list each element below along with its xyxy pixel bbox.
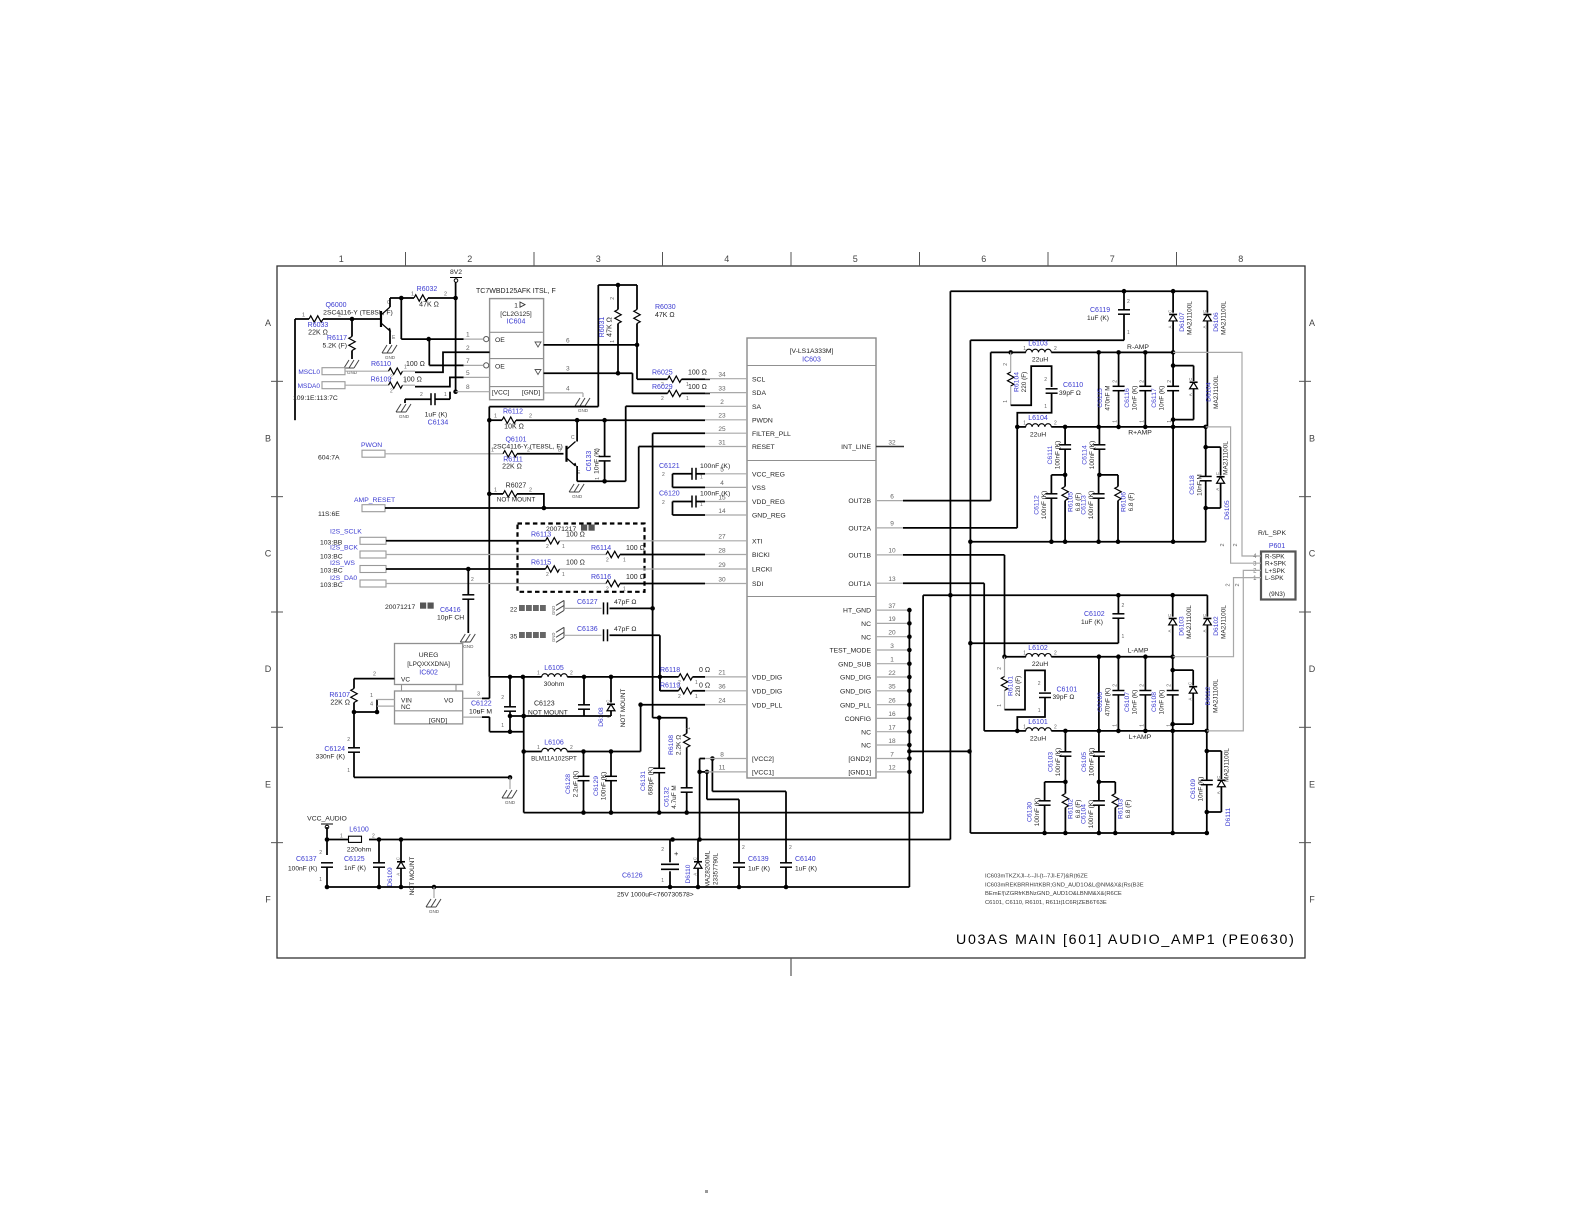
svg-text:R6113: R6113 [531,531,551,538]
svg-text:GND: GND [399,414,410,419]
wire R6033 to base [323,317,381,322]
svg-text:2: 2 [1112,684,1118,687]
svg-text:GND_DIG: GND_DIG [840,675,871,682]
svg-text:L+SPK: L+SPK [1265,568,1286,575]
svg-text:31: 31 [718,439,726,446]
svg-text:2: 2 [546,572,549,578]
svg-text:1: 1 [595,477,601,480]
svg-text:BICKI: BICKI [752,552,770,559]
svg-text:R+SPK: R+SPK [1265,561,1287,568]
node PWON [318,442,385,462]
ground C6134 [396,404,411,419]
wire L6106 feed riser [521,677,526,813]
svg-text:28: 28 [718,547,726,554]
wire 8V2 rail to IC604 VCC [453,296,458,394]
svg-text:47pF Ω: 47pF Ω [614,599,636,606]
svg-text:10nF (K): 10nF (K) [1132,386,1139,411]
svg-text:MA2J1100L: MA2J1100L [1213,679,1220,713]
svg-text:2: 2 [678,694,681,700]
svg-text:R6115: R6115 [531,560,551,567]
svg-text:VCC_REG: VCC_REG [752,471,785,478]
svg-text:1uF (K): 1uF (K) [1081,619,1103,626]
svg-text:11: 11 [719,765,726,772]
svg-text:B: B [1309,433,1315,443]
resistor R6033 [302,302,347,337]
svg-text:2: 2 [606,587,609,593]
svg-text:11S:6E: 11S:6E [318,511,340,518]
svg-text:1: 1 [466,332,470,339]
svg-text:GND: GND [551,633,556,642]
resistor R6115 [386,560,705,579]
svg-text:2: 2 [1139,380,1145,383]
notes text block [985,874,1144,906]
svg-text:GND_DIG: GND_DIG [840,688,871,695]
svg-text:VCC_AUDIO: VCC_AUDIO [307,816,347,823]
svg-text:XTI: XTI [752,538,763,545]
diode D6110 zener [685,840,720,890]
svg-text:4: 4 [370,702,373,708]
svg-text:22K Ω: 22K Ω [502,464,522,471]
node I2S_DA0 [320,575,386,589]
svg-text:OE: OE [495,364,505,371]
svg-text:NOT MOUNT: NOT MOUNT [409,857,416,896]
svg-text:2: 2 [610,297,616,300]
wire trace R-SPK [1173,352,1261,556]
svg-text:A: A [1309,318,1315,328]
svg-text:C6101: C6101 [1057,686,1078,693]
svg-text:C: C [1167,614,1172,617]
wire PWON to R6111 [385,453,503,455]
svg-text:[GND2]: [GND2] [848,756,871,763]
capacitor C6132 [664,785,693,815]
label 20071217 change [546,525,595,534]
svg-text:470nF M: 470nF M [1105,385,1112,410]
svg-text:R6117: R6117 [327,335,347,342]
svg-text:R6105: R6105 [1068,492,1075,512]
ground audio bus [426,899,441,914]
ground IC604 pin4 [575,398,590,413]
svg-text:1: 1 [514,303,518,310]
svg-text:C6132: C6132 [664,787,671,807]
resistor R6117 [322,319,355,359]
svg-text:VO: VO [444,697,453,704]
svg-text:C6108: C6108 [1151,692,1158,712]
IC U604 buffer TC7WBD125AFK [476,288,556,400]
svg-text:D6103: D6103 [1179,616,1186,636]
capacitor C6134 [405,392,450,427]
wire L gnd bus [970,831,1209,836]
svg-text:6.8 (F): 6.8 (F) [1128,493,1135,512]
capacitor C6106 [1097,657,1124,731]
svg-text:R6119: R6119 [660,682,680,689]
svg-text:A: A [1188,698,1193,701]
svg-text:NC: NC [861,634,871,641]
svg-text:100 Ω: 100 Ω [566,531,585,538]
svg-text:1nF (K): 1nF (K) [344,865,366,872]
svg-text:220 (F): 220 (F) [1021,372,1028,393]
svg-text:1: 1 [494,487,497,493]
resistor R6113 [386,531,705,550]
wire IC602 VO [463,691,490,698]
svg-text:A: A [265,318,271,328]
svg-text:PWON: PWON [361,442,382,449]
wire FILTER_PLL net [650,433,705,720]
wire IC602 VC [354,672,395,679]
svg-text:39pF Ω: 39pF Ω [1059,390,1081,397]
svg-text:LRCKI: LRCKI [752,567,772,574]
svg-text:47pF Ω: 47pF Ω [614,626,636,633]
svg-text:1: 1 [562,544,565,550]
wire L mid column [1098,657,1100,731]
svg-text:22uH: 22uH [1030,736,1046,743]
svg-text:A: A [1168,325,1173,328]
capacitor C6116 [1124,352,1151,427]
svg-text:IC603: IC603 [802,357,821,364]
svg-text:10: 10 [888,548,896,555]
svg-text:C6126: C6126 [622,873,643,880]
svg-text:A: A [1167,629,1172,632]
svg-text:OUT1B: OUT1B [848,553,871,560]
wire OUT2B [876,352,991,500]
svg-text:109:1E:113:7C: 109:1E:113:7C [293,395,338,402]
svg-text:2: 2 [420,392,423,398]
svg-text:1: 1 [1003,400,1009,403]
resistor R6027 [487,420,546,677]
svg-text:C: C [1188,682,1193,685]
transistor Q6000 [381,300,396,341]
inductor L6106 [524,740,641,763]
capacitor C6117 [1151,352,1179,541]
svg-text:1uF (K): 1uF (K) [748,866,770,873]
svg-text:1: 1 [340,834,343,840]
svg-text:0 Ω: 0 Ω [699,667,710,674]
svg-text:100nF (K): 100nF (K) [700,463,730,470]
capacitor C6416 [437,569,474,633]
svg-text:22: 22 [888,670,896,677]
svg-text:NC: NC [861,729,871,736]
svg-text:R-SPK: R-SPK [1265,553,1285,560]
svg-text:R6030: R6030 [655,304,676,311]
svg-text:2: 2 [373,672,376,678]
svg-text:GND: GND [578,408,589,413]
svg-text:A: A [1202,629,1207,632]
svg-text:C6121: C6121 [659,463,680,470]
svg-text:I2S_DA0: I2S_DA0 [330,575,357,582]
wire digital vcc riser [922,595,924,812]
capacitor C6110 [1017,377,1083,427]
capacitor C6121 [659,463,730,487]
svg-text:2: 2 [1113,380,1119,383]
diode D6106 [1202,291,1228,427]
svg-text:1: 1 [1122,634,1125,640]
svg-text:B: B [265,433,271,443]
svg-text:100nF (K): 100nF (K) [1055,441,1062,469]
svg-text:100nF (K): 100nF (K) [1089,441,1096,469]
svg-text:1uF (K): 1uF (K) [1087,315,1109,322]
svg-text:5: 5 [853,254,858,264]
wire IC604 pin4 GND [544,385,583,397]
svg-text:[V-LS1A333M]: [V-LS1A333M] [790,348,834,355]
svg-text:1: 1 [997,704,1003,707]
svg-text:F: F [1309,895,1315,905]
svg-text:TC7WBD125AFK ITSL, F: TC7WBD125AFK ITSL, F [476,288,556,295]
svg-text:C6134: C6134 [428,420,449,427]
svg-text:10uF M: 10uF M [469,709,492,716]
svg-text:VDD_PLL: VDD_PLL [752,702,782,709]
svg-text:1: 1 [1044,404,1047,410]
svg-text:100 Ω: 100 Ω [688,369,707,376]
svg-text:NC: NC [861,621,871,628]
svg-text:C: C [1202,614,1207,617]
capacitor C6139 [733,799,770,889]
svg-text:1uF (K): 1uF (K) [795,866,817,873]
svg-text:[GND1]: [GND1] [848,770,871,777]
svg-text:6.8 (F): 6.8 (F) [1125,800,1132,819]
capacitor C6119 [1087,291,1130,340]
resistor R6108 [659,718,692,788]
svg-text:C: C [1215,472,1220,475]
resistor R6104 [1003,352,1028,405]
svg-text:PWDN: PWDN [752,417,773,424]
node MSCL0 [298,368,388,376]
wire C6122 bottom link [490,731,524,733]
diode D6102 [1202,595,1228,731]
svg-text:C6130: C6130 [1027,802,1034,822]
svg-text:MA2J1100L: MA2J1100L [1221,301,1228,335]
svg-text:C6128: C6128 [565,774,572,794]
svg-text:BEmE!|\ZGRfrKBNzGND_AUD1O&LBNM: BEmE!|\ZGRfrKBNzGND_AUD1O&LBNM&X&(R6CE [985,891,1122,897]
label Q6000 part [323,310,393,317]
svg-text:604:7A: 604:7A [318,455,340,462]
svg-text:GND: GND [572,494,583,499]
capacitor C6133 [586,420,611,481]
svg-text:2: 2 [1235,583,1241,586]
svg-text:OUT2A: OUT2A [848,526,871,533]
svg-text:R6108: R6108 [668,735,675,755]
svg-text:VSS: VSS [752,485,766,492]
svg-text:2: 2 [661,396,664,402]
wire audio gnd bus [327,885,909,898]
wire Q6000 emitter [389,331,391,344]
svg-text:32: 32 [888,439,896,446]
svg-text:8: 8 [466,384,470,391]
diode D6109 not mount [387,840,416,896]
svg-text:R6032: R6032 [417,286,438,293]
svg-text:1: 1 [610,340,616,343]
svg-text:SDI: SDI [752,581,763,588]
svg-text:IC603mREKBRRH#tKBR;GND_AUD1O&L: IC603mREKBRRH#tKBR;GND_AUD1O&L@NM&X&(Rs(… [985,882,1144,888]
inductor L6101 [1023,719,1057,743]
svg-text:17: 17 [888,725,896,732]
wire IC604 pin5 [415,370,490,387]
svg-text:L-AMP: L-AMP [1128,648,1149,655]
svg-text:220ohm: 220ohm [347,847,372,854]
capacitor C6102 [1081,595,1125,643]
svg-text:R6102: R6102 [1068,799,1075,819]
svg-text:C6114: C6114 [1082,445,1089,465]
power 8V2 [450,269,462,298]
svg-text:2: 2 [1225,583,1231,586]
svg-text:IC602: IC602 [419,670,438,677]
svg-text:NOT MOUNT: NOT MOUNT [620,689,627,728]
svg-text:1: 1 [1112,724,1118,727]
svg-text:2.2uF (K): 2.2uF (K) [573,771,580,798]
resistor R6118 [660,667,710,686]
svg-text:GND_REG: GND_REG [752,513,786,520]
svg-text:U03AS MAIN [601] AUDIO_AMP1 (P: U03AS MAIN [601] AUDIO_AMP1 (PE0630) [956,932,1296,948]
svg-text:+: + [674,849,679,858]
resistor R6029 [633,373,711,402]
svg-text:NOT MOUNT: NOT MOUNT [497,496,536,503]
svg-text:10K Ω: 10K Ω [504,424,524,431]
svg-text:C6118: C6118 [1189,475,1196,495]
svg-text:C6110: C6110 [1063,382,1083,389]
svg-text:39pF Ω: 39pF Ω [1053,694,1075,701]
wire IC602 GND pin5 [463,710,490,717]
svg-text:100nF (K): 100nF (K) [1034,798,1041,826]
diode D6105 [1206,441,1231,520]
svg-text:[GND]: [GND] [522,390,540,397]
svg-text:2: 2 [1167,380,1173,383]
svg-text:1: 1 [695,680,698,686]
svg-text:1: 1 [1023,650,1026,656]
svg-text:1: 1 [1023,421,1026,427]
label R-AMP [1127,344,1149,351]
diode D6103 [1167,595,1193,657]
svg-text:22K Ω: 22K Ω [308,330,328,337]
svg-text:R6031: R6031 [599,317,606,338]
svg-text:1: 1 [562,572,565,578]
wire OUT1A [876,583,1017,731]
svg-text:HT_GND: HT_GND [843,608,871,615]
svg-text:IC603mTKZXJl--t--Jl-{t--7Jl-E7: IC603mTKZXJl--t--Jl-{t--7Jl-E7}&R(t6ZE [985,874,1088,880]
svg-text:12: 12 [888,765,896,772]
svg-text:R6104: R6104 [1014,372,1021,392]
wire mid trunk [968,340,973,833]
wire R-AMP rail [991,350,1176,355]
svg-text:1: 1 [695,694,698,700]
svg-text:1: 1 [686,396,689,402]
svg-text:SCL: SCL [752,376,765,383]
svg-text:[LPQXXXDNA]: [LPQXXXDNA] [407,661,450,668]
capacitor C6108 [1151,657,1179,833]
resistor R6111 [491,436,564,470]
capacitor C6123 not mount [528,677,590,717]
svg-text:22uH: 22uH [1032,661,1048,668]
capacitor C6118 [1189,427,1221,542]
svg-text:R+AMP: R+AMP [1128,430,1152,437]
svg-text:27: 27 [718,534,726,541]
svg-text:1: 1 [491,447,494,453]
resistor R6031 [599,285,621,373]
svg-text:2: 2 [347,737,350,743]
svg-text:2: 2 [501,695,504,701]
svg-text:OE: OE [495,337,505,344]
svg-text:19: 19 [888,616,896,623]
svg-text:2: 2 [662,472,665,478]
svg-text:6: 6 [981,254,986,264]
svg-text:10nF M: 10nF M [1197,474,1204,496]
svg-text:C6119: C6119 [1090,307,1110,314]
svg-text:36: 36 [718,684,726,691]
svg-text:37: 37 [888,603,896,610]
inductor L6104 [1023,415,1057,439]
node MSDA0 [298,382,389,390]
IC U603 audio amp V-LS1A333M [705,338,896,778]
svg-text:AMP_RESET: AMP_RESET [354,497,395,504]
wire R+AMP rail [1015,425,1208,430]
svg-text:R6114: R6114 [591,545,611,552]
svg-text:INT_LINE: INT_LINE [841,444,871,451]
svg-text:2.2K Ω: 2.2K Ω [676,735,683,755]
svg-text:1: 1 [404,379,407,385]
svg-text:3: 3 [477,691,480,697]
svg-text:NC: NC [861,743,871,750]
svg-text:C: C [1168,310,1173,313]
svg-text:2: 2 [372,834,375,840]
label R+AMP [1128,430,1152,437]
svg-text:L+AMP: L+AMP [1129,734,1152,741]
wire R top rail [950,289,1207,294]
svg-text:6: 6 [890,493,894,500]
svg-text:C6137: C6137 [296,856,317,863]
capacitor C6103 [1048,731,1072,784]
svg-text:2: 2 [997,667,1003,670]
svg-text:2: 2 [720,399,724,406]
svg-text:3: 3 [890,643,894,650]
wire C6102 bottom rail [970,642,1118,644]
svg-text:2: 2 [662,500,665,506]
svg-text:10nF (K): 10nF (K) [1159,690,1166,715]
svg-text:R6107: R6107 [329,692,350,699]
resistor R6110 [371,361,425,381]
svg-text:22uH: 22uH [1032,357,1048,364]
svg-text:1: 1 [1113,420,1119,423]
svg-text:21: 21 [718,670,726,677]
svg-text:TEST_MODE: TEST_MODE [829,648,871,655]
svg-text:C6116: C6116 [1124,388,1131,408]
capacitor C6120 [659,491,730,515]
node I2S_WS [320,560,386,575]
resistor R6119 [660,677,710,700]
svg-text:R6103: R6103 [1118,799,1125,819]
svg-text:RESET: RESET [752,444,775,451]
svg-text:R6101: R6101 [1008,676,1015,696]
wire Q6101 collector [576,420,578,441]
svg-text:2: 2 [661,847,664,853]
ground under Q6000 [382,345,397,360]
svg-text:R6111: R6111 [503,456,523,463]
svg-text:C6124: C6124 [324,746,345,753]
capacitor C6115 [1097,352,1125,427]
svg-text:35: 35 [888,684,896,691]
ground mid [502,790,517,805]
svg-text:F: F [265,895,271,905]
capacitor C6107 [1124,657,1151,731]
svg-text:1: 1 [1023,725,1026,731]
svg-text:22K Ω: 22K Ω [330,700,350,707]
svg-text:4.7uF M: 4.7uF M [671,785,678,808]
svg-text:2: 2 [1127,299,1130,305]
svg-text:2: 2 [1220,543,1226,546]
svg-text:[VCC]: [VCC] [492,390,510,397]
svg-text:R6109: R6109 [371,377,392,384]
svg-text:5: 5 [466,370,470,377]
svg-text:C6117: C6117 [1151,388,1158,408]
wire IC602 VIN NC [354,693,395,714]
svg-text:C6139: C6139 [748,856,769,863]
svg-text:IC604: IC604 [507,319,526,326]
